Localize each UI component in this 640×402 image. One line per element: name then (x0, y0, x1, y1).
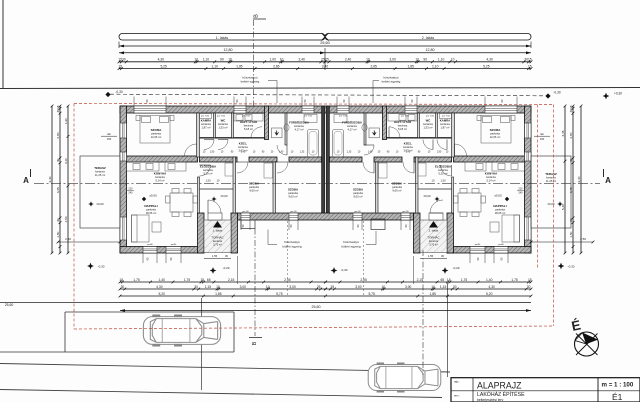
bathtub unit1 (308, 130, 319, 158)
level -0,30 below terasz unit1 (87, 263, 94, 270)
svg-text:kerámia: kerámia (546, 176, 556, 180)
svg-text:parketta: parketta (392, 185, 402, 189)
cabinet eloszoba unit1 (225, 163, 233, 176)
svg-text:15: 15 (447, 278, 451, 282)
datum dashed line -0,30 (110, 94, 546, 96)
level -0,29 below porch unit2 (442, 267, 449, 274)
svg-text:4,17 m²: 4,17 m² (294, 128, 303, 132)
svg-text:-0,30: -0,30 (341, 268, 348, 272)
window furdo north unit2 (337, 106, 349, 113)
svg-text:12,06 m²: 12,06 m² (151, 135, 162, 139)
terasz dim 2,50 unit1 (58, 241, 120, 243)
svg-text:4,50: 4,50 (64, 216, 68, 222)
svg-text:1,40: 1,40 (486, 278, 493, 282)
eloszoba bottom line unit2 (418, 188, 452, 190)
window szoba north unit1 (134, 106, 166, 113)
door kamra unit2 (437, 140, 447, 150)
heat pump outdoor unit1 (241, 220, 255, 229)
svg-text:9,00 m²: 9,00 m² (353, 195, 362, 199)
svg-text:SZOBA: SZOBA (490, 128, 502, 132)
svg-text:10: 10 (280, 58, 284, 62)
window nappali south 2 unit2 (470, 247, 485, 254)
svg-text:pm90: pm90 (475, 244, 481, 246)
svg-text:±0,00: ±0,00 (547, 202, 555, 206)
svg-text:1,40: 1,40 (368, 152, 373, 154)
svg-text:25,60: 25,60 (320, 41, 330, 45)
svg-text:1,85: 1,85 (215, 292, 222, 296)
svg-text:11,25 m²: 11,25 m² (95, 173, 106, 177)
svg-text:pm 90: pm 90 (290, 211, 297, 213)
svg-text:LAKÓHÁZ ÉPÍTÉSE: LAKÓHÁZ ÉPÍTÉSE (477, 391, 525, 398)
axis line x423 over car (422, 362, 424, 375)
exterior wall west (120, 106, 127, 253)
svg-text:5,18 m²: 5,18 m² (398, 127, 407, 131)
kitchen counter unit2 (492, 162, 525, 171)
svg-text:pm90: pm90 (147, 244, 153, 246)
svg-text:pm 7.60: pm 7.60 (242, 116, 251, 118)
svg-text:WC: WC (426, 119, 431, 123)
svg-text:B: B (254, 14, 260, 18)
svg-text:parketta: parketta (249, 185, 259, 189)
svg-text:pm 90: pm 90 (402, 211, 409, 213)
svg-text:A: A (23, 176, 29, 185)
capsule junction X mark (322, 33, 329, 41)
svg-text:m = 1 : 100: m = 1 : 100 (602, 382, 634, 389)
overall dimension 25,60 top (119, 45, 531, 47)
svg-text:18,06 m²: 18,06 m² (146, 211, 157, 215)
window dim ticks above top wall (133, 97, 135, 107)
svg-text:3,10: 3,10 (64, 158, 68, 164)
svg-text:±0,00: ±0,00 (96, 202, 104, 206)
exterior wall east (525, 106, 532, 253)
roof outline red dashed extra right (537, 105, 539, 269)
svg-text:1,10: 1,10 (212, 64, 219, 68)
svg-text:1,15: 1,15 (205, 285, 212, 289)
bed unit2 (481, 116, 511, 144)
svg-text:±0,00: ±0,00 (423, 194, 431, 198)
site line y303 (0, 302, 120, 304)
svg-text:kerámia: kerámia (218, 122, 228, 126)
washbasin unit1 (304, 115, 317, 123)
witness line center x364 (363, 221, 365, 297)
svg-text:9,60 m²: 9,60 m² (249, 189, 258, 193)
sofa unit1 (132, 215, 150, 242)
roof outline red dashed bottom (74, 326, 554, 329)
svg-text:TERASZ: TERASZ (545, 172, 557, 176)
kamra shelf unit2 (440, 114, 452, 119)
porch side wall right unit1 (231, 213, 238, 253)
window szoba west/east unit2 (525, 123, 532, 138)
svg-text:belterjesztési terv: belterjesztési terv (477, 398, 504, 402)
svg-text:30: 30 (569, 158, 573, 162)
svg-text:1,53 m²: 1,53 m² (423, 126, 432, 130)
svg-text:2,65: 2,65 (370, 64, 377, 68)
svg-text:2. lakás: 2. lakás (422, 36, 435, 40)
svg-text:5,20 m²: 5,20 m² (203, 172, 212, 176)
bed unit1 (140, 116, 170, 144)
svg-text:±0,00: ±0,00 (149, 194, 157, 198)
svg-text:kerámia: kerámia (440, 122, 450, 126)
svg-text:parketta: parketta (353, 191, 363, 195)
svg-text:ALAPRAJZ: ALAPRAJZ (477, 380, 522, 390)
top detail dimension chain 1 (119, 61, 325, 63)
axis B dash-dot line bottom (254, 229, 256, 337)
svg-text:tab: tab (540, 132, 544, 136)
svg-text:1,53 m²: 1,53 m² (218, 126, 227, 130)
wall hazt east hatch unit2 (383, 106, 387, 140)
svg-text:2,65: 2,65 (273, 64, 280, 68)
svg-text:5,75: 5,75 (276, 292, 283, 296)
svg-text:1,50: 1,50 (56, 231, 60, 237)
svg-text:5,25: 5,25 (160, 64, 167, 68)
heat pump outdoor unit2 (371, 219, 385, 230)
svg-text:210: 210 (518, 188, 523, 191)
svg-text:1,50: 1,50 (569, 231, 573, 237)
svg-text:pm 90: pm 90 (242, 211, 249, 213)
door furdo unit1 (277, 145, 287, 155)
window nappali west/east unit1 (120, 217, 127, 240)
svg-text:parketta: parketta (490, 132, 500, 136)
south wall nappali unit1 (120, 247, 204, 254)
svg-text:KAMRA: KAMRA (440, 119, 450, 123)
window nappali south 1 unit2 (494, 247, 508, 254)
svg-text:1,45: 1,45 (406, 152, 411, 154)
sofa unit2 (502, 215, 520, 242)
svg-text:SZOBA: SZOBA (288, 188, 299, 192)
bottom dimension chain B (120, 288, 326, 290)
svg-text:1,55: 1,55 (212, 254, 218, 258)
svg-text:parketta: parketta (495, 208, 505, 212)
title block (451, 378, 640, 402)
svg-text:pm 7.60: pm 7.60 (401, 116, 410, 118)
svg-text:kerámia: kerámia (429, 239, 439, 243)
terasz outline unit1 (80, 156, 120, 228)
porch side wall right unit2 (447, 213, 454, 253)
svg-text:18,06 m²: 18,06 m² (495, 211, 506, 215)
svg-text:HÁZT. H.TÁR: HÁZT. H.TÁR (394, 119, 411, 124)
svg-text:2,15: 2,15 (228, 278, 235, 282)
door szoba2 unit1 (277, 162, 288, 173)
wardrobe szoba1 unit1 (264, 163, 273, 178)
level mark nappali unit2 (505, 197, 509, 201)
svg-text:2,80: 2,80 (569, 132, 573, 138)
top detail dimension chain 2 (119, 68, 531, 70)
svg-text:4,30: 4,30 (158, 58, 165, 62)
attic closet unit1 (272, 128, 283, 138)
porch dim 1,55 unit2 (420, 258, 447, 260)
svg-text:3,70 m²: 3,70 m² (429, 243, 438, 247)
road edge line lower-1 (0, 364, 450, 373)
svg-text:2,15: 2,15 (417, 278, 424, 282)
svg-text:kerámia: kerámia (347, 124, 357, 128)
svg-text:pm 7.60: pm 7.60 (201, 116, 210, 118)
svg-text:1,85: 1,85 (407, 64, 414, 68)
svg-text:kerámia: kerámia (403, 145, 413, 149)
svg-text:1,90: 1,90 (437, 152, 442, 154)
car 1 (143, 316, 220, 345)
svg-text:30: 30 (225, 254, 228, 258)
partition kozlekedo/furdo unit2 (364, 113, 366, 145)
svg-text:KONYHA: KONYHA (485, 172, 498, 176)
leader line x201 bottom (201, 298, 203, 390)
door eloszoba-konyha unit1 (200, 165, 211, 176)
svg-text:3,00: 3,00 (389, 58, 396, 62)
svg-text:kültéri egység: kültéri egység (282, 245, 301, 249)
interior wall under NW szoba unit1 (127, 156, 198, 162)
svg-text:1,75: 1,75 (133, 278, 140, 282)
svg-text:240: 240 (128, 191, 133, 194)
svg-text:4,30: 4,30 (156, 285, 163, 289)
front door porch unit2 (429, 213, 443, 220)
door hazt unit1 (251, 127, 262, 138)
window furdo north unit1 (302, 106, 314, 113)
svg-text:1,75: 1,75 (184, 278, 191, 282)
thin wall under small rooms unit1 (197, 137, 266, 139)
partition kamra/wc unit2 (436, 113, 438, 138)
svg-text:ELŐSZOBA: ELŐSZOBA (200, 164, 217, 169)
terasz outline unit2 (531, 156, 571, 228)
party wall (322, 106, 325, 220)
svg-text:4,30: 4,30 (486, 58, 493, 62)
door eloszoba-konyha unit2 (441, 165, 452, 176)
right vertical chain 3 (580, 106, 582, 253)
svg-text:B: B (252, 341, 258, 345)
svg-text:WC: WC (221, 119, 226, 123)
svg-text:1,35: 1,35 (300, 152, 305, 154)
svg-text:2,40: 2,40 (345, 58, 352, 62)
right vertical chain 2 (572, 106, 574, 253)
svg-text:30: 30 (56, 158, 60, 162)
svg-text:tab: tab (107, 132, 111, 136)
window szoba1 south unit2 (401, 213, 410, 220)
interior wall corridor south unit1 (200, 157, 238, 162)
svg-text:+0,30: +0,30 (614, 92, 622, 96)
svg-text:5,18 m²: 5,18 m² (244, 127, 253, 131)
svg-text:25: 25 (317, 285, 321, 289)
eloszoba bottom line unit1 (200, 188, 234, 190)
svg-text:beltéri egység: beltéri egység (241, 79, 260, 83)
svg-text:-0,30: -0,30 (115, 90, 122, 94)
svg-text:15: 15 (119, 278, 123, 282)
partition szoba/kamra col unit2 (452, 113, 455, 157)
dining table unit2 (458, 193, 481, 212)
bottom dimension chain C (120, 295, 531, 297)
svg-text:3,70 m²: 3,70 m² (213, 243, 222, 247)
partition szoba1/szoba2 unit2 (376, 162, 379, 213)
svg-text:90: 90 (423, 58, 427, 62)
svg-text:3,45: 3,45 (569, 187, 573, 193)
left vertical chain 3 (67, 106, 69, 253)
svg-text:kerámia: kerámia (398, 124, 408, 128)
porch dim 1,55 unit1 (204, 258, 231, 260)
partition wc/hazt unit2 (418, 113, 420, 138)
compass north arrow (575, 332, 599, 356)
svg-text:±0,00: ±0,00 (494, 194, 502, 198)
parking area rectangle (65, 311, 234, 313)
svg-text:-0,30: -0,30 (98, 265, 105, 269)
svg-text:NAPPALI: NAPPALI (144, 204, 157, 208)
svg-text:15: 15 (56, 105, 60, 109)
svg-text:TORNÁC: TORNÁC (211, 236, 223, 240)
svg-text:parketta: parketta (151, 132, 161, 136)
door szoba1 unit2 (403, 162, 414, 173)
svg-text:kerámia: kerámia (213, 239, 223, 243)
svg-text:-0,29: -0,29 (223, 266, 230, 270)
svg-text:hőszivattyú: hőszivattyú (343, 240, 359, 244)
svg-text:150: 150 (107, 137, 112, 141)
svg-text:9,40: 9,40 (48, 176, 52, 182)
roof outline red dashed top (74, 104, 554, 105)
door wc unit1 (218, 140, 228, 150)
door kamra unit1 (204, 140, 214, 150)
svg-text:kerámia: kerámia (201, 122, 211, 126)
svg-text:25,60: 25,60 (312, 305, 321, 309)
partition wc/hazt unit1 (232, 113, 234, 138)
interior wall under NW szoba unit2 (454, 156, 525, 162)
svg-text:-0,30: -0,30 (568, 265, 575, 269)
svg-text:30: 30 (194, 285, 198, 289)
svg-text:10: 10 (266, 285, 270, 289)
level mark terasz unit1 (88, 201, 94, 207)
svg-text:3,00: 3,00 (355, 285, 362, 289)
porch floor unit2 (420, 220, 447, 253)
svg-text:1. lakás: 1. lakás (213, 229, 223, 233)
window szoba1 south unit1 (241, 213, 250, 220)
front door porch unit1 (208, 213, 222, 220)
svg-text:pm 7.60: pm 7.60 (217, 116, 226, 118)
svg-text:FÜRDŐSZOBA: FÜRDŐSZOBA (342, 120, 362, 125)
svg-text:1,55: 1,55 (428, 254, 434, 258)
svg-text:10: 10 (431, 285, 435, 289)
svg-text:kerámia: kerámia (438, 168, 448, 172)
svg-text:30: 30 (441, 254, 444, 258)
window szoba west/east unit1 (120, 123, 127, 138)
svg-text:ELŐSZOBA: ELŐSZOBA (435, 164, 452, 169)
terasz door west/east unit2 (525, 152, 532, 161)
partition kamra/wc unit1 (214, 113, 216, 138)
svg-text:5,14 m²: 5,14 m² (155, 179, 164, 183)
svg-text:1,35: 1,35 (347, 152, 352, 154)
svg-text:1,15: 1,15 (440, 285, 447, 289)
kitchen counter unit1 (127, 162, 160, 171)
svg-text:kerámia: kerámia (486, 175, 496, 179)
svg-text:pm 7.60: pm 7.60 (426, 116, 435, 118)
partition kozlekedo/furdo unit1 (285, 113, 287, 145)
partition eloszoba/konyha unit1 (198, 177, 200, 213)
level mark eloszoba unit2 (434, 196, 439, 201)
porch floor unit1 (204, 220, 231, 253)
svg-text:9,40: 9,40 (577, 176, 581, 182)
svg-text:30: 30 (453, 285, 457, 289)
svg-text:10: 10 (216, 285, 220, 289)
svg-text:SZOBA: SZOBA (353, 188, 364, 192)
svg-text:1,75: 1,75 (511, 278, 518, 282)
wall hazt east hatch unit1 (265, 106, 269, 140)
svg-text:30: 30 (569, 109, 573, 113)
svg-text:3,45: 3,45 (56, 187, 60, 193)
toilet unit2 (362, 124, 367, 131)
entrance triangle unit1 (213, 221, 222, 228)
svg-text:30: 30 (56, 109, 60, 113)
attic closet unit2 (369, 128, 380, 138)
svg-text:1. lakás: 1. lakás (216, 36, 229, 40)
svg-text:KÖZL.: KÖZL. (404, 141, 413, 146)
svg-text:10: 10 (194, 58, 198, 62)
svg-text:15: 15 (528, 58, 532, 62)
window dim ticks below south walls (240, 220, 242, 230)
svg-text:10: 10 (451, 58, 455, 62)
cabinet eloszoba unit2 (418, 163, 426, 176)
svg-text:2,40: 2,40 (298, 58, 305, 62)
svg-text:beltéri egység: beltéri egység (382, 79, 401, 83)
svg-text:15: 15 (200, 278, 204, 282)
terasz door west/east unit1 (120, 152, 127, 161)
svg-text:150: 150 (540, 137, 545, 141)
svg-text:25: 25 (325, 58, 329, 62)
svg-text:KONYHA: KONYHA (154, 172, 167, 176)
svg-text:SZOBA: SZOBA (151, 128, 163, 132)
window nappali west/east unit2 (525, 217, 532, 240)
interior wall corridor south unit2 (414, 157, 452, 162)
svg-text:2. lakás: 2. lakás (429, 229, 439, 233)
svg-text:3,00: 3,00 (240, 285, 247, 289)
svg-text:1,95: 1,95 (236, 64, 243, 68)
right vertical chain 1 (564, 106, 566, 253)
porch side wall left unit1 (198, 213, 205, 253)
svg-text:11,25 m²: 11,25 m² (546, 179, 557, 183)
door szoba2 unit2 (363, 162, 374, 173)
witness line porch left unit2 (413, 256, 415, 284)
svg-text:1,00: 1,00 (269, 58, 276, 62)
svg-text:30: 30 (569, 218, 573, 222)
kamra shelf unit1 (200, 114, 212, 119)
level mark eloszoba unit1 (211, 196, 216, 201)
svg-text:kerámia: kerámia (155, 175, 165, 179)
partition szoba1/szoba2 unit1 (273, 162, 276, 213)
road edge line lower-2 (0, 390, 442, 398)
svg-text:15: 15 (528, 64, 532, 68)
window nappali south 1 unit1 (143, 247, 157, 254)
section line A-A (34, 182, 600, 184)
svg-text:10: 10 (366, 58, 370, 62)
svg-text:15: 15 (528, 278, 532, 282)
level starburst +0,30 right end (603, 93, 610, 100)
washbasin unit2 (334, 115, 347, 123)
dimension 12,80 unit1 (119, 52, 325, 54)
svg-text:5,20: 5,20 (486, 292, 493, 296)
bathtub unit2 (333, 130, 344, 158)
svg-text:3,40: 3,40 (322, 64, 329, 68)
bottom dimension chain A (120, 281, 326, 283)
svg-text:kerámia: kerámia (95, 170, 105, 174)
svg-text:pm90: pm90 (171, 244, 177, 246)
svg-text:terv :: terv : (454, 394, 460, 398)
svg-text:210: 210 (128, 188, 133, 191)
car 2 (368, 364, 441, 392)
svg-text:2,80: 2,80 (56, 132, 60, 138)
south wall nappali unit2 (447, 247, 531, 254)
svg-text:pm 7.60: pm 7.60 (339, 116, 348, 118)
svg-text:10: 10 (415, 58, 419, 62)
svg-text:1,10: 1,10 (438, 58, 445, 62)
bottom overall dimension 25,60 (120, 302, 531, 304)
level mark terasz unit2 (557, 201, 563, 207)
svg-text:1,87 m²: 1,87 m² (440, 126, 449, 130)
svg-text:1,90: 1,90 (210, 152, 215, 154)
road edge line upper (0, 88, 640, 89)
svg-text:±0,00: ±0,00 (220, 194, 228, 198)
svg-text:65: 65 (207, 278, 211, 282)
